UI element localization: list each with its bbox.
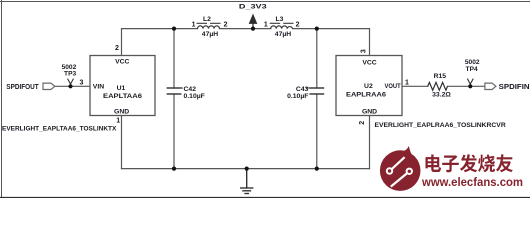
svg-text:TP4: TP4 (466, 66, 478, 73)
svg-text:1: 1 (405, 79, 409, 86)
wire: C43 branch vertical (316, 29, 318, 88)
svg-text:VCC: VCC (362, 59, 376, 66)
svg-text:TP3: TP3 (64, 70, 76, 77)
wire: C42 branch vertical (173, 29, 175, 88)
connector SPDIFIN (off-page, input) (485, 83, 496, 89)
svg-text:L2: L2 (203, 16, 211, 23)
svg-text:0.10µF: 0.10µF (184, 93, 205, 100)
junction dot: C42 top rail (172, 27, 176, 31)
svg-text:3: 3 (80, 79, 84, 86)
svg-text:2: 2 (359, 121, 366, 125)
svg-text:EVERLIGHT_EAPLTAA6_TOSLINKTX: EVERLIGHT_EAPLTAA6_TOSLINKTX (2, 126, 117, 133)
svg-text:5002: 5002 (465, 59, 480, 66)
inductor L3 core bar (dashed) (270, 22, 294, 24)
svg-text:VCC: VCC (115, 59, 129, 66)
svg-text:EAPLTAA6: EAPLTAA6 (103, 93, 142, 100)
junction dot: TP3 on VIN wire (68, 84, 72, 88)
svg-text:SPDIFIN: SPDIFIN (499, 84, 530, 91)
wire: top rail middle segment (L2 pin 2 to L3 pin 1) (220, 28, 271, 30)
svg-text:L3: L3 (276, 16, 284, 23)
svg-text:1: 1 (192, 22, 196, 29)
wire: U2 VOUT to R15 (402, 85, 428, 87)
svg-text:2: 2 (224, 22, 228, 29)
resistor R15 zigzag (428, 82, 448, 90)
svg-text:www.elecfans.com: www.elecfans.com (421, 175, 523, 189)
wire: U2 GND pin down (369, 116, 371, 169)
svg-text:1: 1 (116, 118, 120, 125)
svg-text:EAPLRAA6: EAPLRAA6 (346, 91, 386, 98)
connector SPDIFOUT (off-page, output) (43, 83, 55, 89)
capacitor C42 leader tick (178, 87, 183, 89)
wire: top rail left segment (U1 VCC to L2 pin 1) (122, 29, 198, 56)
capacitor C42 plates (167, 88, 182, 94)
watermark logo circle (elecfans) (380, 146, 421, 191)
wire: R15 to SPDIFIN connector (448, 85, 485, 87)
watermark text (Chinese): dianzi fashaoyou (425, 154, 512, 172)
junction dot: D_3V3 on rail (251, 27, 255, 31)
svg-text:0.10µF: 0.10µF (287, 93, 308, 100)
power symbol D_3V3 arrow (249, 14, 258, 29)
wire: SPDIFOUT to U1 VIN (55, 85, 90, 87)
svg-text:2: 2 (296, 22, 300, 29)
test point TP4 symbol (467, 79, 473, 87)
test point TP3 symbol (68, 79, 74, 87)
svg-text:EVERLIGHT_EAPLRAA6_TOSLINKRCVR: EVERLIGHT_EAPLRAA6_TOSLINKRCVR (375, 122, 506, 129)
svg-text:1: 1 (264, 22, 268, 29)
svg-text:SPDIFOUT: SPDIFOUT (6, 84, 39, 91)
wire: U1 GND pin down (121, 116, 123, 169)
inductor L3 coil (271, 26, 293, 29)
svg-text:GND: GND (362, 109, 377, 116)
wire: top rail right segment (L3 pin 2 to U2 VCC) (293, 29, 370, 56)
svg-text:VIN: VIN (93, 84, 104, 91)
svg-text:3: 3 (361, 49, 368, 53)
junction dot: TP4 on VOUT wire (468, 84, 472, 88)
wire: bottom ground rail (122, 168, 370, 170)
svg-text:47µH: 47µH (275, 31, 291, 38)
ground symbol (240, 169, 253, 194)
junction dot: C42 bottom rail (172, 167, 176, 171)
svg-text:D_3V3: D_3V3 (239, 3, 267, 10)
IC U2 EAPLRAA6 body (336, 56, 402, 116)
IC U1 EAPLTAA6 body (90, 56, 155, 116)
capacitor C43 plates (309, 88, 324, 94)
inductor L2 coil (198, 26, 220, 29)
junction dot: C43 bottom rail (315, 167, 319, 171)
svg-text:33.2Ω: 33.2Ω (432, 91, 451, 98)
svg-text:U1: U1 (117, 85, 126, 92)
svg-text:47µH: 47µH (202, 31, 218, 38)
junction dot: ground on bottom rail (245, 167, 249, 171)
inductor L2 core bar (dashed) (197, 22, 221, 24)
capacitor C43 leader tick (306, 87, 310, 89)
svg-text:U2: U2 (364, 83, 373, 90)
svg-text:R15: R15 (434, 73, 447, 80)
svg-text:2: 2 (115, 45, 119, 52)
svg-text:VOUT: VOUT (385, 83, 402, 90)
junction dot: C43 top rail (315, 27, 319, 31)
svg-text:GND: GND (114, 109, 129, 116)
